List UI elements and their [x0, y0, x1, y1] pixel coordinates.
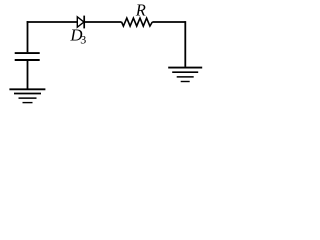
resistor R: [122, 18, 153, 26]
svg-text:R: R: [135, 1, 146, 20]
wire: top horizontal, resistor to right corner: [152, 21, 185, 23]
svg-text:3: 3: [80, 33, 86, 47]
label D3: [69, 25, 86, 46]
wire: top horizontal, left segment (source to diode anode): [27, 21, 77, 23]
wire: left vertical (capacitor down to ground): [27, 61, 29, 89]
diode D3: [77, 16, 84, 29]
ground (right): [168, 68, 202, 82]
wire: top horizontal, diode cathode to resistor: [84, 21, 121, 23]
ground (left): [9, 89, 45, 102]
wire: left vertical (top corner down to capacitor): [27, 21, 29, 52]
capacitor: [15, 53, 40, 60]
wire: right vertical (top corner down to ground): [184, 21, 186, 67]
